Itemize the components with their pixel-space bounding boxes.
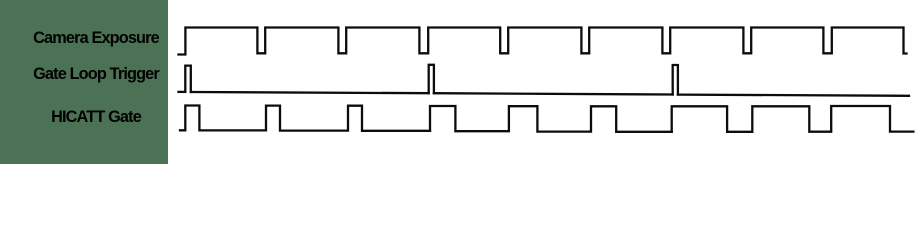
wire: gate loop trigger baseline segment 3 [434,93,673,94]
wire: gate loop trigger baseline end [678,95,909,96]
label: Camera Exposure [33,30,159,46]
wire: HICATT gate narrow-pulse section [180,106,430,131]
wire: HICATT gate wide-pulse section [672,106,914,132]
trigger spike 3 [673,65,678,95]
wire: gate loop trigger baseline segment 2 [191,92,429,93]
label: Gate Loop Trigger [33,66,159,82]
trigger spike 2 [429,65,434,93]
label: HICATT Gate [51,109,141,125]
wire: gate loop trigger baseline start [179,91,186,93]
wire: HICATT gate medium-pulse section [430,106,672,132]
green sidebar panel (slide background matte) [0,0,168,164]
trigger spike 1 [185,66,191,92]
wire: camera exposure trace (pulse train, narrow low dips) [179,28,907,55]
